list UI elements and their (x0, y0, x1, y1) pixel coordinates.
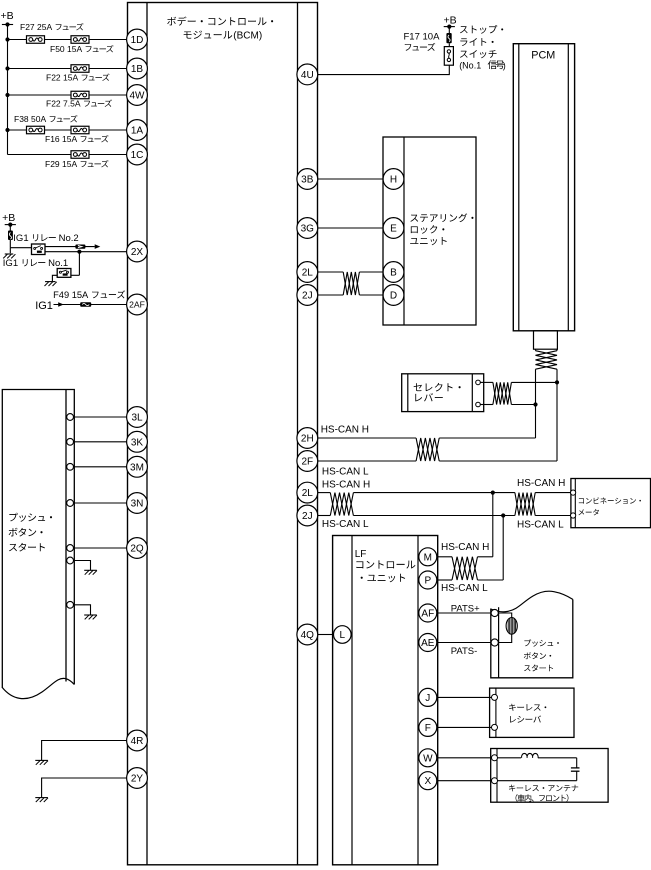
wire PCM CAN-H down to 2H line (533, 369, 537, 438)
svg-text:HS-CAN H: HS-CAN H (322, 480, 370, 491)
LF pin M (419, 548, 437, 566)
push button start switch unit (left) (2, 390, 74, 699)
ground (push start 1) (84, 570, 97, 574)
svg-text:F27 25A: F27 25A (20, 22, 52, 32)
fuse F38 50A (14, 114, 77, 134)
BCM title (167, 16, 273, 41)
wire to pin 3L (67, 414, 127, 421)
steering lock pin B (383, 262, 404, 283)
BCM pin 2J (steering) (297, 285, 318, 306)
wire push start to ground 2 (67, 601, 91, 614)
twisted pair LF CAN (452, 557, 478, 580)
wire to pin 1C (8, 154, 127, 156)
wire pin 4R to ground (42, 741, 127, 761)
wire 2L to B (CAN) (318, 271, 383, 273)
keyless receiver terminals (492, 694, 498, 730)
BCM pin 2L (steering) (297, 262, 318, 283)
ground (push start 2) (84, 615, 97, 619)
relay coil IG1 No.2 (8, 225, 13, 248)
fuse F17 10A (404, 27, 452, 51)
power symbol +B (stop light) (444, 14, 457, 28)
svg-text:3G: 3G (301, 224, 315, 235)
wire to pin 1A (8, 129, 127, 131)
immobilizer coil (498, 613, 517, 643)
svg-text:1B: 1B (131, 64, 144, 75)
LF pin AE (419, 634, 437, 652)
wire AE PATS- (437, 643, 491, 657)
svg-text:No.1: No.1 (48, 258, 68, 269)
combination meter terminals (571, 490, 576, 518)
stop light switch (No.1 signal) (444, 25, 506, 70)
svg-text:2F: 2F (301, 457, 313, 468)
BCM pin 2Y (127, 768, 148, 789)
svg-text:PATS-: PATS- (451, 646, 478, 657)
BCM pin 3M (127, 456, 148, 477)
svg-text:X: X (424, 776, 431, 787)
wire pin 2Y to ground (42, 778, 127, 797)
PCM connector block (534, 331, 558, 349)
svg-text:3L: 3L (131, 413, 143, 424)
BCM pin 2X (127, 241, 148, 262)
wire 2L HS-CAN H to combination meter (318, 478, 571, 495)
svg-text:(BCM): (BCM) (233, 31, 262, 42)
svg-text:HS-CAN H: HS-CAN H (517, 478, 565, 489)
svg-text:2AF: 2AF (129, 300, 145, 310)
wire to pin 1B (8, 68, 127, 70)
svg-text:F16 15A: F16 15A (45, 134, 77, 144)
PCM powertrain control module box (513, 44, 574, 331)
wire to pin 2Q (67, 545, 127, 552)
svg-text:2L: 2L (302, 268, 314, 279)
wire coil to relay contacts (10, 247, 31, 249)
svg-text:2Y: 2Y (131, 774, 144, 785)
svg-text:3B: 3B (301, 175, 314, 186)
fuse F49 15A (53, 290, 125, 307)
BCM pin 1B (127, 58, 148, 79)
keyless antenna box (491, 749, 608, 803)
svg-text:HS-CAN L: HS-CAN L (517, 520, 564, 531)
wire 2F HS-CAN L to PCM (318, 461, 557, 478)
BCM pin 2H (297, 428, 318, 449)
svg-text:IG1: IG1 (35, 300, 53, 312)
fuse F22 15A (46, 65, 109, 83)
svg-text:W: W (423, 753, 433, 764)
power symbol +B (battery feed, top left) (1, 10, 14, 27)
twisted pair at combination meter (515, 493, 535, 516)
svg-text:HS-CAN H: HS-CAN H (441, 542, 489, 553)
BCM pin 3G (297, 218, 318, 239)
svg-text:2Q: 2Q (130, 544, 144, 555)
steering lock unit box (383, 137, 476, 325)
svg-text:LF: LF (355, 549, 367, 560)
svg-text:HS-CAN L: HS-CAN L (322, 519, 369, 530)
BCM pin 1C (127, 144, 148, 165)
fuse F22 7.5A (46, 91, 112, 108)
svg-text:2H: 2H (301, 434, 314, 445)
wire X to keyless antenna (437, 780, 492, 782)
svg-text:4U: 4U (301, 70, 314, 81)
antenna capacitor (498, 758, 580, 781)
ground (relay coil) (3, 248, 15, 259)
svg-text:4Q: 4Q (301, 630, 315, 641)
svg-text:2X: 2X (131, 247, 144, 258)
svg-text:+B: +B (2, 212, 15, 224)
svg-text:+B: +B (1, 10, 14, 22)
wire 2J HS-CAN L to combination meter (318, 513, 571, 530)
select lever unit box (402, 374, 484, 412)
svg-text:(No.1: (No.1 (459, 60, 481, 70)
wire push start to ground 1 (67, 557, 91, 570)
twisted pair steering lock CAN (343, 272, 359, 295)
wire AF PATS+ (437, 603, 491, 614)
svg-text:F22 15A: F22 15A (46, 73, 78, 83)
fuse F16 15A (45, 126, 108, 144)
wire to pin 4W (8, 94, 127, 96)
steering lock pin E (383, 218, 404, 239)
wire select lever CAN-H (480, 381, 557, 383)
svg-text:IG1: IG1 (13, 233, 28, 244)
LF pin X (419, 772, 437, 790)
LF pin L (334, 626, 352, 644)
ground (4R) (35, 760, 48, 764)
power symbol +B (IG1 relay feed) (2, 212, 16, 227)
push button start unit (immobilizer coil) (491, 591, 573, 678)
wire 2J to D (CAN) (318, 294, 383, 296)
combination meter box (571, 479, 651, 528)
wire switch to pin 4U (318, 65, 449, 74)
svg-text:F: F (425, 723, 431, 734)
svg-text:HS-CAN L: HS-CAN L (441, 583, 488, 594)
BCM pin 3N (127, 493, 148, 514)
svg-text:F22 7.5A: F22 7.5A (46, 99, 81, 109)
ground (2Y) (35, 798, 48, 802)
wire 4Q to L (318, 634, 334, 636)
svg-text:): ) (503, 60, 506, 70)
BCM pin 3K (127, 431, 148, 452)
BCM pin 4Q (297, 624, 318, 645)
svg-text:P: P (424, 576, 431, 587)
svg-text:No.2: No.2 (59, 233, 79, 244)
ground (relay No.1) (45, 282, 57, 286)
LF pin F (419, 718, 437, 736)
wire relay No.2 to pin 2X (45, 250, 127, 254)
svg-text:3N: 3N (131, 499, 144, 510)
svg-text:H: H (390, 175, 397, 186)
wire M HS-CAN H riser (437, 493, 493, 557)
BCM pin 2Q (127, 538, 148, 559)
svg-text:4R: 4R (131, 736, 144, 747)
svg-text:F17 10A: F17 10A (404, 32, 441, 43)
svg-text:IG1: IG1 (3, 258, 18, 269)
wire select lever CAN-L (480, 404, 535, 406)
wire 2H HS-CAN H to PCM (318, 424, 536, 438)
antenna inductor (498, 753, 577, 757)
relay IG1 No.2 contacts (13, 233, 78, 255)
svg-text:L: L (340, 630, 346, 641)
BCM pin 4R (127, 730, 148, 751)
push start terminals (491, 609, 498, 646)
svg-text:B: B (390, 268, 397, 279)
wire W to keyless antenna (437, 757, 492, 759)
twisted pair select lever (493, 382, 512, 404)
svg-text:3K: 3K (131, 437, 144, 448)
svg-text:PATS+: PATS+ (451, 603, 480, 614)
svg-text:M: M (424, 552, 432, 563)
fuse F29 15A (45, 151, 108, 169)
BCM pin 2AF (127, 294, 148, 315)
svg-text:F50 15A: F50 15A (50, 44, 82, 54)
twisted pair 2L/2J at BCM (330, 493, 353, 516)
LF pin AF (419, 604, 437, 622)
BCM pin 2L (meter) (297, 482, 318, 503)
BCM pin 3B (297, 169, 318, 190)
junction dots on +B bus (5, 37, 9, 132)
BCM pin 2J (meter) (297, 505, 318, 526)
BCM pin 4W (127, 85, 148, 106)
svg-text:F49 15A: F49 15A (53, 290, 89, 300)
LF pin J (419, 688, 437, 706)
svg-text:F38 50A: F38 50A (14, 114, 46, 124)
wire to pin 3K (67, 438, 127, 445)
wire F to keyless receiver (437, 726, 492, 728)
BCM body control module box (128, 3, 318, 865)
wire relay No.1 to junction (71, 252, 80, 276)
LF control unit box (333, 536, 438, 865)
svg-text:4W: 4W (130, 91, 146, 102)
keyless receiver box (490, 688, 574, 737)
BCM pin 1A (127, 120, 148, 141)
svg-text:2L: 2L (302, 488, 314, 499)
wire +B bus (vertical) (7, 25, 9, 155)
svg-text:1D: 1D (131, 35, 144, 46)
wire to pin 3N (67, 500, 127, 507)
svg-text:HS-CAN L: HS-CAN L (322, 467, 369, 478)
wire relay No.1 to ground (52, 275, 57, 281)
wire relay No.2 output with inline connector and arrow (45, 244, 100, 249)
svg-text:F29 15A: F29 15A (45, 159, 77, 169)
wire to pin 1D (8, 39, 127, 41)
svg-text:HS-CAN H: HS-CAN H (321, 424, 369, 435)
keyless antenna terminals (492, 755, 498, 784)
svg-text:1C: 1C (131, 150, 144, 161)
svg-text:3M: 3M (130, 462, 144, 473)
wire to pin 3M (67, 463, 127, 470)
node IG1 feed (35, 300, 127, 312)
BCM pin 4U (297, 64, 318, 85)
svg-text:+B: +B (444, 14, 457, 26)
wire P HS-CAN L riser (437, 516, 503, 595)
svg-text:E: E (390, 224, 397, 235)
svg-text:AF: AF (421, 609, 434, 620)
LF pin W (419, 749, 437, 767)
svg-text:D: D (390, 291, 397, 302)
wire J to keyless receiver (437, 696, 492, 698)
svg-text:2J: 2J (302, 291, 313, 302)
wire 3B to H (318, 178, 383, 180)
twisted pair 2H/2F (416, 438, 439, 461)
BCM pin 3L (127, 407, 148, 428)
fuse F27 25A (20, 22, 83, 43)
svg-text:PCM: PCM (531, 50, 555, 62)
wire 3G to E (318, 227, 383, 229)
svg-text:J: J (425, 693, 430, 704)
steering lock pin H (383, 169, 404, 190)
twisted pair PCM CAN (vertical) (536, 349, 558, 369)
LF pin P (419, 571, 437, 589)
svg-text:2J: 2J (302, 511, 313, 522)
BCM pin 1D (127, 29, 148, 50)
relay IG1 No.1 contacts (3, 258, 71, 277)
steering lock pin D (383, 285, 404, 306)
select lever terminals (476, 380, 481, 407)
fuse F50 15A (50, 36, 113, 54)
BCM pin 2F (297, 451, 318, 472)
svg-text:AE: AE (421, 638, 435, 649)
svg-text:1A: 1A (131, 126, 144, 137)
wire PCM CAN-L down to 2F line (555, 369, 559, 461)
